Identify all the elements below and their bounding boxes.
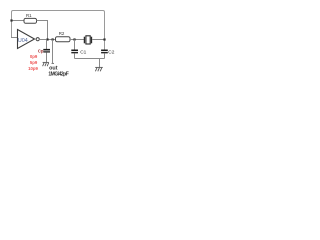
wire R1 right side down to output node (37, 21, 48, 40)
wire crystal to right vertical (92, 39, 104, 41)
crystal X1 body (86, 36, 90, 44)
wire down to capacitor Cp (46, 40, 48, 50)
crystal X1 right plate (91, 37, 93, 44)
wire C2 to rail (104, 53, 106, 58)
wire outer feedback loop from input node to crystal-right node (12, 11, 105, 50)
wire out terminal (52, 40, 54, 64)
wire down to C1 (74, 40, 76, 50)
resistor R1 (24, 18, 37, 23)
svg-text:C2: C2 (108, 50, 114, 56)
wire ground rail (75, 58, 105, 60)
wire R1 branch left (11, 20, 24, 22)
ground chassis right (95, 67, 103, 71)
inverter U04 triangle (18, 30, 35, 49)
ground chassis left (43, 62, 49, 66)
inverter output bubble (36, 38, 39, 41)
capacitor C2 (101, 49, 108, 51)
resistor R2 (56, 37, 71, 42)
wire ground stub (99, 59, 101, 68)
wire C1 to rail (74, 53, 76, 58)
wire R2 to crystal (70, 39, 85, 41)
wire input to inverter (11, 37, 18, 39)
terminal tick out (52, 62, 55, 64)
svg-text:5p9: 5p9 (30, 60, 38, 65)
node junction crystal right (103, 38, 105, 40)
svg-text:0p9: 0p9 (30, 54, 38, 59)
svg-text:Cp: Cp (38, 49, 44, 54)
node junction output / R1 / Cp (46, 38, 48, 40)
crystal X1 left plate (83, 37, 85, 44)
wire Cp to ground (46, 53, 48, 63)
node junction C1 branch (73, 38, 75, 40)
wire inverter output (39, 39, 55, 41)
capacitor C1 (71, 49, 78, 51)
svg-text:R1: R1 (26, 13, 32, 18)
svg-text:10p9: 10p9 (28, 66, 38, 71)
node junction left vertical / R1 branch (10, 19, 12, 21)
svg-text:1MGi42pF: 1MGi42pF (48, 71, 68, 77)
svg-text:R2: R2 (59, 31, 65, 36)
svg-text:U04: U04 (18, 38, 28, 44)
node junction output / out terminal (52, 38, 54, 40)
capacitor Cp (43, 49, 50, 51)
svg-text:C1: C1 (80, 50, 86, 56)
